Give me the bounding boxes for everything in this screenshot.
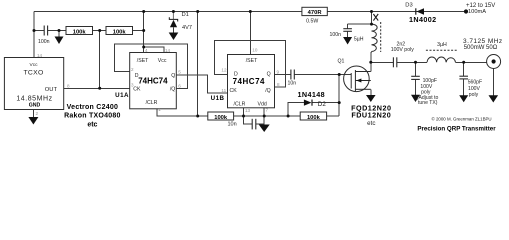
svg-text:1N4002: 1N4002: [409, 15, 437, 24]
svg-text:D1: D1: [182, 12, 189, 18]
svg-text:100k: 100k: [113, 30, 127, 36]
svg-text:Precision QRP Transmitter: Precision QRP Transmitter: [417, 125, 496, 132]
svg-text:470R: 470R: [308, 10, 323, 16]
node U1A set/vcc branch: [142, 46, 145, 49]
svg-text:poly: poly: [469, 92, 479, 98]
svg-text:3µH: 3µH: [437, 42, 447, 48]
node bottom row riser: [196, 115, 199, 118]
svg-text:Vcc: Vcc: [158, 58, 167, 64]
capacitor C6 2n2 plates: [393, 57, 396, 67]
svg-text:/Q: /Q: [170, 86, 175, 92]
svg-text:etc: etc: [87, 121, 97, 128]
wire 100k to riser: [133, 30, 144, 32]
node drain junction: [369, 61, 372, 64]
wire left riser rail to TCXO Vcc pin 14: [33, 12, 35, 58]
wire FET source down: [370, 89, 372, 95]
wire connector shield down: [492, 69, 494, 96]
resistor R2 100k: [106, 27, 133, 36]
wire gate 100k to riser: [327, 115, 340, 117]
node 100pF junction: [414, 61, 417, 64]
ground TCXO: [28, 117, 38, 125]
core dashed 3uH: [426, 49, 457, 51]
svg-text:© 2000 M. Greenman ZL1BPU: © 2000 M. Greenman ZL1BPU: [432, 117, 492, 122]
wire coil bottom to drain node: [370, 52, 373, 63]
svg-text:tune TX): tune TX): [418, 100, 438, 106]
wire U1B feedback top: [215, 41, 286, 87]
wire jog riser to U1B CK: [198, 75, 228, 93]
svg-text:4: 4: [145, 48, 148, 53]
wire U1B Vdd pin7 riser to ground: [263, 108, 265, 125]
svg-text:GND: GND: [29, 103, 41, 109]
resistor R4 100k gate: [300, 112, 326, 121]
svg-text:Vcc: Vcc: [30, 62, 39, 68]
svg-text:5: 5: [178, 70, 181, 75]
svg-text:OUT: OUT: [45, 87, 58, 93]
node D2 corner junction: [287, 115, 290, 118]
ground D1: [169, 33, 179, 41]
svg-text:560pF: 560pF: [468, 79, 482, 85]
svg-text:Rakon TXO4080: Rakon TXO4080: [64, 113, 121, 120]
diode D3 1N4002: [416, 8, 424, 14]
inductor L2 3uH: [427, 57, 455, 62]
svg-text:2: 2: [131, 67, 134, 72]
capacitor C8 560pF plates: [459, 76, 468, 79]
resistor R3 100k bottom: [208, 112, 234, 121]
svg-text:74HC74: 74HC74: [233, 77, 265, 86]
node ground bias junction: [58, 29, 61, 32]
capacitor C7 100pF plates: [411, 76, 420, 79]
ground 100n tank: [343, 37, 352, 45]
wire U1B CLR pin13 riser: [243, 108, 245, 116]
svg-text:100n: 100n: [329, 32, 341, 38]
ground bias node: [55, 37, 64, 45]
node pin7 junction: [263, 115, 266, 118]
svg-text:0.5W: 0.5W: [306, 18, 318, 24]
wire 3uH to 560pF node: [456, 61, 487, 63]
svg-text:/SET: /SET: [137, 58, 149, 64]
wire 560pF branch down: [463, 62, 465, 76]
wire tank node to 100n decoupling: [348, 23, 372, 25]
svg-text:14: 14: [37, 53, 43, 58]
node +12V terminal: [464, 9, 468, 13]
svg-text:/Q: /Q: [265, 88, 270, 94]
wire 100n decoupling down: [347, 24, 349, 29]
node pin13 junction: [242, 115, 245, 118]
wire bottom row right of 100k: [234, 115, 301, 117]
svg-text:Vectron C2400: Vectron C2400: [67, 104, 119, 111]
svg-text:100mA: 100mA: [468, 9, 486, 15]
op-amp U1A 74HC74 flip-flop: [130, 53, 177, 109]
node tank top: [370, 23, 373, 26]
TCXO box U2: [4, 58, 63, 110]
svg-text:3: 3: [131, 83, 134, 88]
svg-text:5µH: 5µH: [354, 36, 364, 42]
svg-text:U1B: U1B: [211, 95, 225, 102]
wire 2n2 to 100pF node: [397, 61, 427, 63]
svg-text:14: 14: [165, 48, 171, 53]
op-amp U1B 74HC74 flip-flop: [228, 55, 275, 108]
node rail at D1: [172, 10, 175, 13]
svg-text:9: 9: [277, 69, 280, 74]
svg-text:7: 7: [266, 108, 269, 113]
wire 100pF branch down: [415, 62, 417, 76]
svg-text:500mW 50Ω: 500mW 50Ω: [464, 45, 498, 51]
wire Vcc rail top: [34, 11, 466, 13]
svg-text:Q1: Q1: [338, 59, 345, 65]
wire riser divider to U1A SET: [143, 12, 145, 53]
svg-text:CK: CK: [230, 88, 238, 94]
ground source Q1: [366, 95, 376, 102]
wire U1B SET riser pin10: [249, 12, 251, 55]
capacitor C4 10n coupling plates: [291, 70, 294, 80]
svg-text:100V: 100V: [468, 86, 480, 92]
ground U1B pin7: [259, 125, 270, 133]
node 560pF junction: [462, 61, 465, 64]
svg-text:100n: 100n: [38, 39, 50, 45]
wire U1B Q pin9 to cap: [275, 74, 291, 76]
svg-text:100V poly: 100V poly: [391, 47, 414, 53]
node rail at U1B pin10: [249, 10, 252, 13]
wire D2 cathode to riser: [313, 102, 340, 104]
node rail at riser2: [196, 10, 199, 13]
label X winding: [373, 14, 378, 21]
svg-text:74HC74: 74HC74: [138, 77, 168, 86]
ground 100pF: [411, 95, 420, 102]
wire between 100k resistors: [93, 30, 107, 32]
node rail at U1A riser: [142, 10, 145, 13]
wire D2 row left corner: [288, 103, 304, 116]
wire pin13 down to bypass cap: [244, 116, 253, 124]
node gate row junction: [338, 73, 341, 76]
svg-text:D3: D3: [405, 2, 412, 8]
transistor Q1 MOSFET: [344, 66, 371, 92]
node rail at tank: [370, 10, 373, 13]
svg-text:2: 2: [36, 111, 39, 116]
svg-text:8: 8: [67, 83, 70, 88]
svg-text:10n: 10n: [228, 121, 237, 127]
wire bypass cap to pin7 riser: [256, 123, 264, 125]
resistor R5 470R: [302, 7, 327, 24]
wire riser bias midpoint down to CK row: [99, 31, 101, 89]
svg-text:100k: 100k: [214, 115, 228, 121]
svg-text:/CLR: /CLR: [234, 101, 246, 107]
wire U1A feedback top: [115, 44, 188, 88]
svg-text:U1A: U1A: [115, 92, 129, 99]
svg-text:/CLR: /CLR: [146, 100, 158, 106]
svg-text:10: 10: [252, 48, 258, 53]
svg-text:4V7: 4V7: [182, 25, 192, 31]
wire U1A CLR pin1 down: [157, 109, 208, 116]
node bias cap junction: [33, 29, 36, 32]
svg-text:1: 1: [158, 107, 161, 112]
node bias midpoint: [98, 29, 101, 32]
svg-text:100k: 100k: [307, 115, 321, 121]
svg-text:TCXO: TCXO: [23, 70, 43, 77]
inductor L1 5uH: [372, 24, 378, 51]
node gate riser at D2: [338, 101, 341, 104]
svg-text:10n: 10n: [288, 81, 297, 87]
node CK row junction: [98, 87, 101, 90]
wire U1A Q to riser: [176, 74, 197, 76]
svg-text:100k: 100k: [73, 30, 87, 36]
svg-text:8: 8: [277, 82, 280, 87]
arrow body Q1: [356, 79, 361, 83]
wire cap to gate node: [294, 74, 339, 76]
diode D2 1N4148: [304, 100, 312, 106]
svg-text:CK: CK: [133, 86, 141, 92]
svg-text:1N4148: 1N4148: [298, 90, 326, 99]
wire rail riser down to bottom row: [197, 12, 199, 117]
wire bias row left: [34, 30, 44, 32]
svg-text:13: 13: [245, 108, 251, 113]
wire cap to ground node: [48, 30, 66, 32]
capacitor C5 100n tank decoupling: [343, 29, 352, 32]
svg-text:12: 12: [221, 68, 227, 73]
svg-text:/SET: /SET: [246, 58, 258, 64]
core dashed line: [380, 22, 382, 52]
svg-text:etc: etc: [367, 120, 375, 127]
diode D1 zener 4V7: [169, 12, 177, 33]
capacitor C3 10n bypass plates: [252, 119, 256, 130]
wire U1A Vcc branch pin14: [144, 47, 164, 53]
wire gate node riser: [338, 75, 340, 117]
svg-text:D2: D2: [318, 101, 327, 108]
wire rail T down to tank node: [371, 12, 373, 25]
svg-text:+12 to 15V: +12 to 15V: [466, 3, 495, 9]
wire TCXO OUT to U1A CK: [64, 87, 130, 89]
ground 560pF: [459, 95, 468, 102]
svg-text:Vdd: Vdd: [258, 101, 267, 107]
svg-text:FDU12N20: FDU12N20: [351, 110, 391, 119]
wire output row drain to 2n2: [371, 61, 394, 63]
wire TCXO GND pin: [32, 110, 34, 118]
capacitor C1 100n bias plates: [44, 26, 47, 36]
wire gate into FET: [339, 74, 351, 76]
svg-text:6: 6: [178, 84, 181, 89]
ground connector shield: [489, 95, 499, 102]
svg-text:11: 11: [221, 88, 226, 93]
wire drain riser into FET: [370, 62, 372, 71]
node divider top: [142, 29, 145, 32]
svg-text:3.7125 MHz: 3.7125 MHz: [463, 38, 503, 45]
resistor R1 100k: [66, 27, 93, 36]
svg-text:Q: Q: [267, 71, 271, 77]
connector J1 output: [487, 55, 501, 69]
wire ground node stub: [58, 31, 60, 37]
svg-text:Q: Q: [171, 73, 175, 79]
